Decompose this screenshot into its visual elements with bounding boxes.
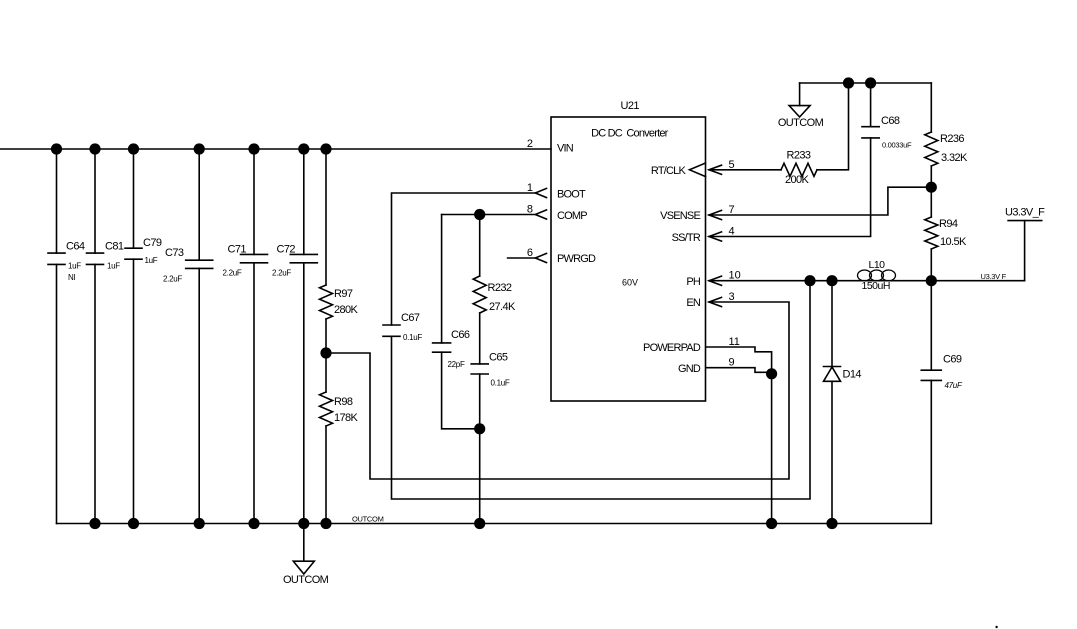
resistor R233 [781, 163, 817, 176]
wire PWRGD stub [508, 257, 536, 259]
pin arrow RT/CLK [709, 165, 722, 174]
wire OUTCOM ground rail [57, 523, 932, 525]
svg-text:R233: R233 [787, 150, 811, 162]
label C73 [163, 247, 184, 284]
svg-text:C72: C72 [277, 244, 296, 256]
svg-text:R94: R94 [939, 218, 958, 230]
ground OUTCOM bottom triangle [293, 561, 314, 574]
wire VIN rail top [0, 148, 551, 150]
svg-text:NI: NI [68, 273, 75, 282]
svg-text:C65: C65 [489, 352, 508, 364]
svg-text:2.2uF: 2.2uF [163, 275, 182, 284]
svg-text:R98: R98 [334, 396, 353, 408]
speck bottom right [995, 626, 997, 628]
svg-text:2.2uF: 2.2uF [272, 269, 291, 278]
svg-text:3.32K: 3.32K [941, 152, 968, 164]
svg-text:1uF: 1uF [107, 262, 120, 271]
label R233 [785, 150, 811, 187]
wire C68 top lead [870, 83, 872, 127]
wire C69 bottom lead [930, 380, 932, 523]
svg-text:R236: R236 [940, 133, 964, 145]
wire C66 top lead [441, 215, 443, 343]
svg-text:C64: C64 [66, 241, 85, 253]
svg-text:9: 9 [729, 357, 735, 369]
svg-text:DC DC Converter: DC DC Converter [591, 128, 669, 140]
wire R97 column [325, 149, 327, 285]
svg-text:C79: C79 [143, 237, 162, 249]
svg-text:10.5K: 10.5K [940, 236, 967, 248]
label R98 [334, 396, 359, 424]
wire U3.3V_F riser [1024, 221, 1026, 281]
svg-text:VIN: VIN [557, 143, 574, 155]
wire R94 top lead [930, 187, 932, 217]
wire C72 column [303, 149, 305, 524]
svg-text:3: 3 [729, 291, 735, 303]
svg-text:60V: 60V [622, 278, 638, 288]
pin arrow EN [709, 297, 722, 306]
wire COMP [442, 214, 536, 216]
IC U21 box [551, 117, 706, 401]
pin arrow COMP [535, 210, 546, 219]
pin arrow PWRGD [535, 253, 546, 262]
svg-text:1: 1 [527, 182, 533, 194]
wire R236 top lead [930, 83, 932, 132]
svg-text:C66: C66 [451, 329, 470, 341]
svg-text:2.2uF: 2.2uF [223, 269, 242, 278]
svg-text:27.4K: 27.4K [489, 301, 516, 313]
capacitor C66 [433, 343, 451, 352]
svg-text:C68: C68 [881, 115, 900, 127]
label C68 [881, 115, 912, 150]
svg-text:0.1uF: 0.1uF [403, 333, 422, 342]
wire GND jog [706, 368, 772, 373]
wire C81 column [94, 149, 96, 524]
wire R97 to node [325, 319, 327, 353]
svg-text:7: 7 [729, 204, 735, 216]
capacitor C68 [862, 127, 879, 138]
label C79 [143, 237, 162, 265]
wire R94 bottom lead [930, 249, 932, 281]
wire C69 top lead [930, 281, 932, 371]
pin arrow PH [709, 276, 722, 285]
pin arrow VSENSE [709, 210, 722, 219]
resistor R232 [473, 276, 486, 313]
pin arrow SS/TR [709, 232, 722, 241]
wire D14 bottom lead [831, 381, 833, 523]
node dots PH net [804, 275, 937, 286]
svg-text:22pF: 22pF [448, 360, 465, 369]
svg-text:U3.3V F: U3.3V F [981, 272, 1007, 281]
label R97 [334, 288, 359, 316]
wire VSENSE net [709, 187, 931, 215]
svg-text:PH: PH [686, 276, 701, 288]
svg-text:4: 4 [729, 226, 735, 238]
svg-text:C71: C71 [228, 244, 247, 256]
svg-text:PWRGD: PWRGD [557, 253, 596, 265]
wire D14 top lead [831, 281, 833, 367]
wire R98 bottom lead [325, 426, 327, 524]
svg-text:OUTCOM: OUTCOM [352, 515, 384, 524]
svg-text:R232: R232 [488, 282, 512, 294]
node dots VIN rail [51, 143, 332, 154]
wire BOOT to C67 [392, 193, 536, 325]
wire GND to ground rail [771, 374, 773, 524]
wire C73 column [198, 149, 200, 524]
svg-text:2: 2 [527, 138, 533, 150]
wire OUTCOM bottom drop [303, 524, 305, 562]
pin arrow BOOT [535, 188, 546, 197]
svg-text:0.0033uF: 0.0033uF [882, 141, 912, 150]
svg-text:1uF: 1uF [145, 256, 158, 265]
inductor L10 [858, 270, 896, 281]
label C64 [66, 241, 85, 283]
svg-text:OUTCOM: OUTCOM [283, 574, 329, 586]
label C67 [401, 312, 422, 342]
node GND POWERPAD [766, 368, 777, 379]
wire top-right rail [800, 82, 932, 84]
svg-text:0.1uF: 0.1uF [491, 379, 510, 388]
wire C66 bottom lead [442, 352, 480, 429]
node R97 R98 divider [320, 347, 331, 358]
wire R233 to top-right rail [817, 83, 849, 170]
svg-text:150uH: 150uH [862, 280, 890, 292]
svg-text:11: 11 [729, 336, 740, 348]
wire PH net [709, 280, 1025, 282]
capacitor C72 [290, 254, 317, 262]
label C81 [105, 241, 124, 271]
svg-text:C73: C73 [165, 247, 184, 259]
wire OUTCOM top drop [799, 83, 801, 106]
svg-text:POWERPAD: POWERPAD [643, 342, 701, 354]
svg-text:47uF: 47uF [945, 381, 963, 390]
resistor R98 [320, 392, 333, 426]
capacitor C81 [87, 253, 104, 264]
svg-text:L10: L10 [869, 259, 886, 271]
svg-text:BOOT: BOOT [557, 188, 586, 200]
svg-text:SS/TR: SS/TR [672, 232, 701, 244]
capacitor C73 [186, 260, 213, 268]
svg-text:5: 5 [729, 159, 735, 171]
svg-text:OUTCOM: OUTCOM [778, 117, 824, 129]
svg-text:EN: EN [686, 297, 701, 309]
node C66 C65 junction [474, 423, 485, 434]
svg-text:GND: GND [678, 363, 701, 375]
label L10 [862, 259, 890, 292]
wire R98 top lead [325, 353, 327, 392]
resistor R236 [925, 132, 938, 166]
svg-text:COMP: COMP [557, 210, 587, 222]
capacitor C65 [471, 364, 488, 374]
svg-text:6: 6 [527, 247, 533, 259]
svg-text:178K: 178K [334, 412, 359, 424]
svg-text:C81: C81 [105, 241, 124, 253]
wire RT/CLK to R233 [709, 169, 781, 171]
capacitor C67 [383, 325, 400, 336]
svg-text:U3.3V_F: U3.3V_F [1005, 207, 1045, 219]
svg-text:10: 10 [729, 270, 741, 282]
label C72 [272, 244, 295, 278]
svg-text:D14: D14 [843, 369, 862, 381]
node COMP [474, 209, 485, 220]
wire C64 column [56, 149, 58, 524]
svg-text:RT/CLK: RT/CLK [651, 165, 687, 177]
power symbol U3.3V_F bar [1008, 220, 1042, 222]
wire C79 column [133, 149, 135, 524]
capacitor C64 [48, 253, 65, 264]
wire C67 to PH [392, 281, 811, 499]
svg-text:R97: R97 [334, 288, 353, 300]
svg-text:U21: U21 [621, 100, 640, 112]
svg-text:200K: 200K [785, 174, 810, 186]
label R236 [940, 133, 968, 164]
node VSENSE divider [926, 182, 937, 193]
wire R232 top lead [479, 215, 481, 277]
capacitor C79 [125, 248, 142, 259]
wire divider node to EN run [326, 302, 789, 479]
capacitor C71 [241, 254, 268, 262]
label C69 [943, 354, 963, 391]
svg-text:C69: C69 [943, 354, 962, 366]
wire C68 to SS/TR [709, 138, 871, 237]
wire C71 column [253, 149, 255, 524]
svg-text:C67: C67 [401, 312, 420, 324]
label R94 [939, 218, 967, 248]
svg-text:8: 8 [527, 204, 533, 216]
diode D14 [824, 367, 841, 382]
label R232 [488, 282, 517, 313]
capacitor C69 [921, 370, 941, 380]
svg-text:1uF: 1uF [68, 262, 81, 271]
svg-text:280K: 280K [334, 304, 359, 316]
wire POWERPAD jog [706, 347, 772, 374]
label C65 [489, 352, 510, 388]
label C66 [448, 329, 470, 369]
wire R232 to C65 [479, 313, 481, 364]
resistor R97 [320, 285, 333, 319]
pin arrow RT/CLK internal [690, 163, 706, 177]
ground OUTCOM top triangle [789, 106, 810, 117]
label C71 [223, 244, 247, 278]
svg-text:VSENSE: VSENSE [660, 210, 700, 222]
resistor R94 [925, 217, 938, 249]
node dots top-right rail [843, 77, 876, 88]
node dots ground rail [89, 518, 837, 529]
wire R236 bottom lead [930, 166, 932, 187]
wire C65 to ground rail [479, 374, 481, 524]
